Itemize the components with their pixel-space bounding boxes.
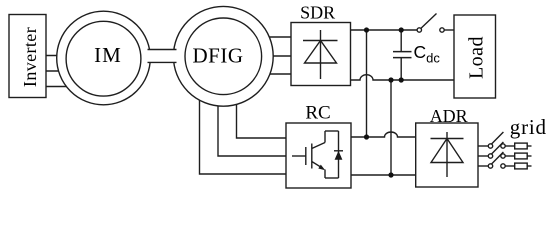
wire DC bus negative bottom rail with hop (351, 75, 455, 80)
wire inverter-IM phase a (46, 55, 80, 57)
switch grid phase a left contact (488, 144, 492, 148)
junction node top rail cap (399, 27, 404, 32)
switch DC link blade (421, 14, 437, 29)
capacitor Cdc leads (400, 30, 402, 52)
wire grid phase a (505, 145, 514, 147)
generator DFIG outer circle (173, 6, 273, 106)
junction node RC output top (364, 134, 369, 139)
switch grid phase c blade (491, 152, 504, 165)
diode antiparallel in RC (334, 131, 343, 178)
load box (454, 15, 496, 98)
wire ADR output phase b (478, 155, 488, 157)
wire switch to load (444, 29, 454, 31)
svg-text:RC: RC (305, 103, 330, 124)
switch grid phase a right contact (501, 144, 505, 148)
wire grid phase b (505, 155, 514, 157)
transistor IGBT in RC (292, 131, 339, 178)
junction node bottom rail cap (399, 77, 404, 82)
resistor grid phase a (515, 143, 528, 149)
junction node top rail bus (364, 27, 369, 32)
wire DFIG rotor phase b (218, 95, 286, 156)
wire inverter-IM phase c (46, 86, 75, 88)
wire grid phase b tail (527, 155, 531, 157)
wire DFIG rotor phase c (200, 95, 287, 174)
diode ADR symbol (431, 132, 464, 177)
svg-text:IM: IM (94, 43, 122, 67)
svg-text:Load: Load (466, 36, 488, 79)
switch grid phase a blade (491, 132, 504, 145)
motor IM outer circle (57, 11, 151, 105)
junction node RC output bottom (388, 172, 393, 177)
switch grid phase b left contact (488, 154, 492, 158)
resistor grid phase b (515, 153, 528, 159)
wire DFIG stator phase a (255, 36, 291, 38)
wire ADR output phase a (478, 145, 488, 147)
svg-text:grid: grid (510, 115, 547, 139)
diode SDR symbol (303, 30, 338, 79)
motor IM inner circle (66, 21, 141, 96)
inverter box (9, 15, 46, 98)
switch DC link right contact (440, 28, 444, 32)
switch grid phase c right contact (501, 164, 505, 168)
switch grid phase b right contact (501, 154, 505, 158)
shaft coupling IM-DFIG (148, 50, 177, 63)
wire inverter-IM phase b (46, 70, 70, 72)
wire grid phase c (505, 165, 514, 167)
wire vertical bus from bottom rail to RC output (390, 80, 392, 175)
svg-text:Cdc: Cdc (414, 42, 441, 65)
rectifier ADR box (416, 123, 478, 187)
wire ADR output phase c (478, 165, 488, 167)
rectifier SDR box (291, 23, 351, 86)
wire grid phase a tail (527, 145, 531, 147)
svg-text:DFIG: DFIG (192, 43, 243, 67)
switch grid phase c left contact (488, 164, 492, 168)
svg-text:ADR: ADR (430, 106, 468, 126)
svg-text:Inverter: Inverter (20, 27, 40, 87)
junction node bottom rail bus (388, 77, 393, 82)
wire grid phase c tail (527, 165, 531, 167)
switch grid phase b blade (491, 142, 504, 155)
wire RC bottom output to ADR (351, 174, 416, 176)
wire DFIG stator phase c (255, 73, 291, 75)
wire RC top output to ADR with hop (351, 132, 416, 137)
generator DFIG inner circle (185, 18, 262, 95)
converter RC box (286, 123, 351, 188)
switch DC link left contact (417, 28, 421, 32)
wire DC bus positive top rail (351, 29, 418, 31)
svg-text:SDR: SDR (300, 3, 335, 23)
resistor grid phase c (515, 163, 528, 169)
wire DFIG stator phase b (255, 55, 291, 57)
capacitor Cdc plates (393, 51, 412, 53)
wire vertical bus from top rail to RC output (366, 30, 368, 137)
wire DFIG rotor phase a (237, 90, 287, 138)
